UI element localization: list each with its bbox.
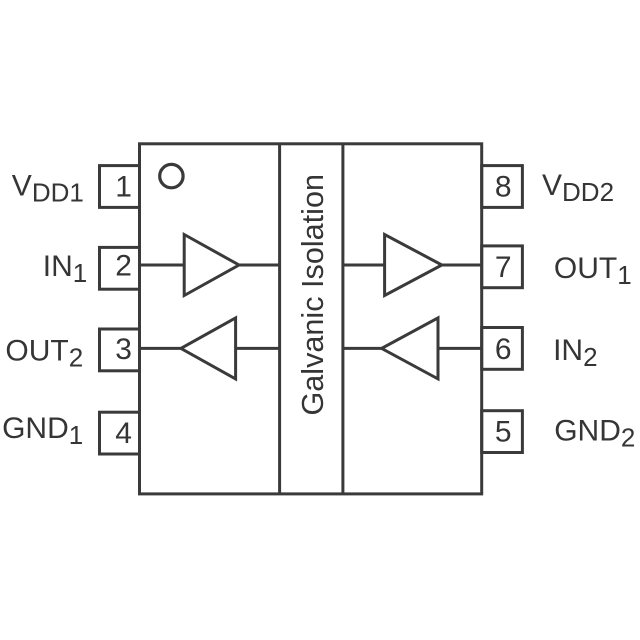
svg-text:OUT1: OUT1 [554,252,632,290]
wire pin3 to buffer B [140,347,181,350]
svg-text:VDD2: VDD2 [542,169,614,207]
buffer C (channel 1 output side) [385,235,442,296]
wire buffer D to pin6 [438,347,482,350]
pin 2 box [100,247,140,289]
pin 6 box [482,328,523,370]
svg-text:7: 7 [495,251,512,284]
svg-text:IN2: IN2 [553,334,597,372]
svg-text:Galvanic Isolation: Galvanic Isolation [296,174,330,415]
svg-text:6: 6 [495,333,512,366]
buffer B (channel 2 output side) [181,318,236,379]
IC body U1 [140,144,482,494]
pin 5 box [482,411,523,453]
pin 8 box [482,166,523,208]
pin 1 box [100,166,140,208]
pin 3 box [100,329,140,371]
svg-text:GND2: GND2 [554,415,635,453]
wire barrier to buffer C [343,264,385,267]
svg-text:VDD1: VDD1 [12,169,84,207]
buffer D (channel 2 input side) [382,318,438,379]
wire buffer A to barrier [239,264,280,267]
svg-text:1: 1 [115,171,132,204]
isolation barrier right line [341,144,344,494]
svg-text:IN1: IN1 [43,250,87,288]
svg-text:4: 4 [115,417,132,450]
wire barrier to buffer D [343,347,382,350]
svg-text:GND1: GND1 [2,412,83,450]
svg-text:2: 2 [115,250,132,283]
wire buffer C to pin7 [442,264,482,267]
svg-text:8: 8 [495,171,512,204]
pin 4 box [100,412,140,454]
pin 1 indicator circle [160,164,183,187]
svg-text:5: 5 [495,415,512,448]
pin 7 box [482,246,523,288]
wire buffer B to barrier [236,347,280,350]
svg-text:3: 3 [115,333,132,366]
wire pin2 to buffer A [140,264,185,267]
isolation barrier left line [278,144,281,494]
buffer A (channel 1 input side) [184,235,239,296]
svg-text:OUT2: OUT2 [5,335,83,373]
